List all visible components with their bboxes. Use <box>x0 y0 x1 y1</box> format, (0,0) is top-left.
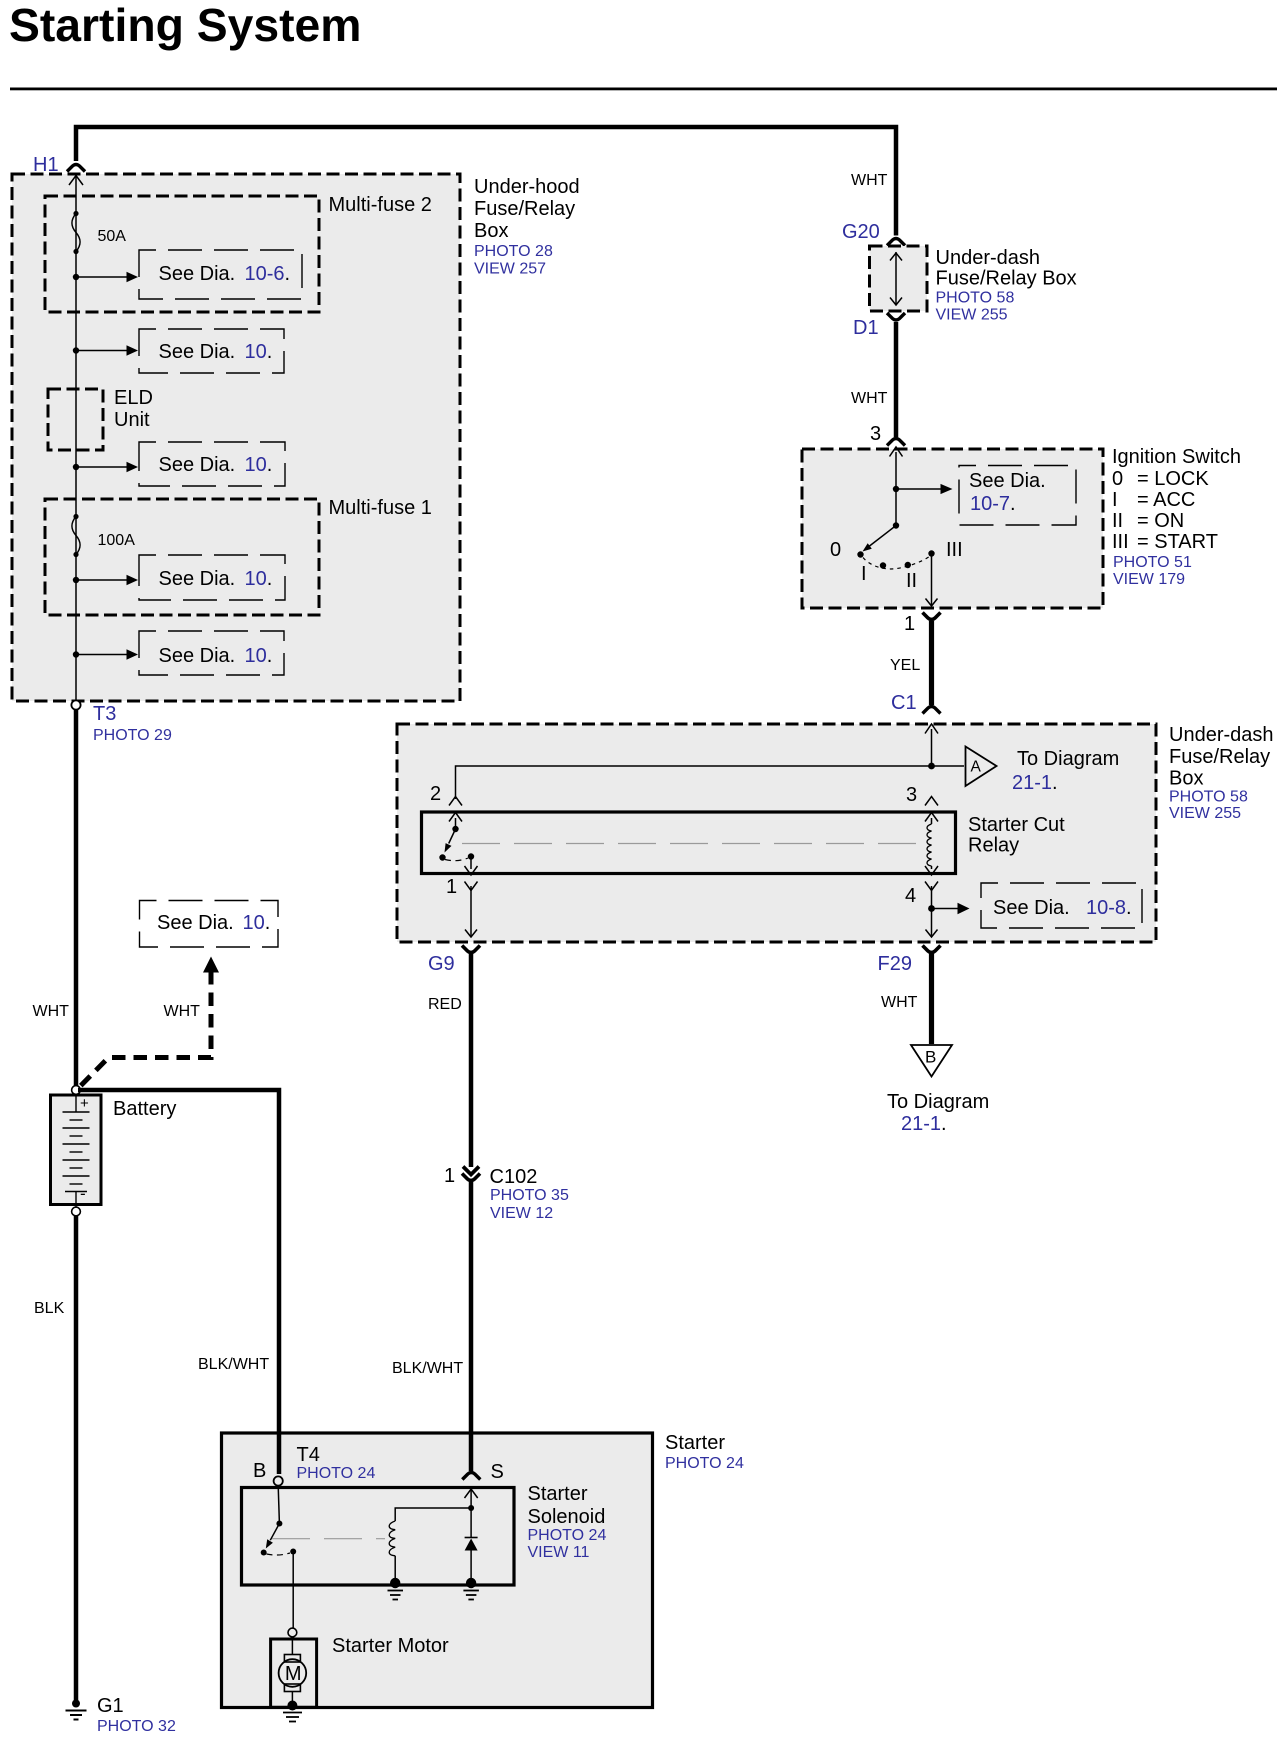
svg-text:C1: C1 <box>891 692 917 714</box>
svg-text:C102: C102 <box>490 1166 538 1188</box>
wire: battery feed top run H1 to G20 <box>76 127 896 236</box>
node F29 <box>923 946 941 953</box>
wire arrow to see dia 10 <box>76 579 127 581</box>
svg-text:See Dia.: See Dia. <box>159 454 236 476</box>
svg-text:Multi-fuse 1: Multi-fuse 1 <box>329 497 432 519</box>
battery + terminal <box>72 1086 81 1095</box>
node G9 <box>462 946 480 953</box>
see dia 10 box <box>139 442 285 486</box>
see dia 10 box (battery feed) <box>140 901 279 948</box>
svg-text:BLK/WHT: BLK/WHT <box>198 1356 269 1373</box>
svg-text:50A: 50A <box>98 228 127 245</box>
see dia 10 box <box>139 555 285 600</box>
wire: main vertical bus in under-hood box <box>75 176 77 701</box>
motor ground <box>287 1701 297 1711</box>
node junction <box>893 486 899 492</box>
svg-text:Starter: Starter <box>665 1432 725 1454</box>
svg-text:= ON: = ON <box>1137 510 1184 532</box>
svg-text:PHOTO 58: PHOTO 58 <box>1169 789 1248 806</box>
solenoid coil ground <box>390 1578 400 1588</box>
svg-text:21-1.: 21-1. <box>1012 772 1058 794</box>
starter solenoid box <box>242 1488 515 1586</box>
svg-text:Starter Cut: Starter Cut <box>968 814 1065 836</box>
svg-text:10-8.: 10-8. <box>1086 897 1132 919</box>
solenoid contact from B <box>278 1486 279 1524</box>
wire arrow to see dia 10 <box>76 466 127 468</box>
svg-text:PHOTO 24: PHOTO 24 <box>528 1527 607 1544</box>
ignition pin1 male-female terminal <box>923 613 941 620</box>
node H1 male terminal <box>69 176 83 186</box>
svg-text:VIEW 11: VIEW 11 <box>528 1544 590 1561</box>
node junction <box>73 464 79 470</box>
svg-text:See Dia.: See Dia. <box>159 263 236 285</box>
svg-text:To Diagram: To Diagram <box>887 1091 989 1113</box>
svg-text:10.: 10. <box>245 454 273 476</box>
svg-text:Ignition Switch: Ignition Switch <box>1112 446 1241 468</box>
svg-text:To Diagram: To Diagram <box>1017 748 1119 770</box>
svg-text:PHOTO 24: PHOTO 24 <box>297 1465 376 1482</box>
under-hood fuse/relay box <box>12 174 460 701</box>
svg-text:B: B <box>253 1460 266 1482</box>
to diagram A triangle <box>966 747 997 787</box>
see dia 10-7 box <box>959 466 1076 526</box>
svg-text:See Dia.: See Dia. <box>993 897 1070 919</box>
svg-text:G1: G1 <box>97 1695 124 1717</box>
under-dash fuse/relay box (upper) <box>870 246 928 311</box>
svg-text:Fuse/Relay: Fuse/Relay <box>474 198 575 220</box>
svg-text:= START: = START <box>1137 531 1218 553</box>
relay linkage dashed <box>462 843 925 845</box>
svg-text:I: I <box>1112 489 1118 511</box>
ignition switch connector female <box>887 439 905 446</box>
svg-text:Fuse/Relay: Fuse/Relay <box>1169 746 1270 768</box>
svg-text:II: II <box>906 570 917 592</box>
svg-text:PHOTO 35: PHOTO 35 <box>490 1187 569 1204</box>
wire rail to A and pin 2 <box>456 766 965 799</box>
svg-text:100A: 100A <box>98 532 136 549</box>
svg-text:= ACC: = ACC <box>1137 489 1195 511</box>
node junction on rail <box>928 763 935 770</box>
svg-text:Under-hood: Under-hood <box>474 176 580 198</box>
node G20 female terminal <box>887 239 905 246</box>
solenoid diode ground <box>466 1578 476 1588</box>
motor M <box>291 1637 293 1655</box>
wire RED G9 to C102 <box>469 952 474 1167</box>
switch contacts 0 I II III <box>857 551 863 557</box>
svg-text:WHT: WHT <box>851 390 888 407</box>
starter cut relay box <box>422 812 956 874</box>
relay pin2 terminals <box>449 797 462 822</box>
svg-text:Box: Box <box>474 220 508 242</box>
svg-text:PHOTO 32: PHOTO 32 <box>97 1718 176 1735</box>
node C1 female terminal <box>923 707 941 714</box>
svg-text:Starter: Starter <box>528 1483 588 1505</box>
svg-text:VIEW 257: VIEW 257 <box>474 261 546 278</box>
relay pin4 terminals <box>925 866 938 891</box>
node junction <box>73 274 79 280</box>
svg-text:G9: G9 <box>428 953 455 975</box>
battery - terminal <box>72 1207 81 1216</box>
svg-text:10-7.: 10-7. <box>970 493 1016 515</box>
wire pin1 to G9 <box>470 886 472 936</box>
connector C102 <box>463 1167 479 1175</box>
svg-text:2: 2 <box>430 783 441 805</box>
svg-text:III: III <box>1112 531 1129 553</box>
wire arrow to see dia 10-8 <box>932 908 959 910</box>
svg-text:PHOTO 24: PHOTO 24 <box>665 1455 744 1472</box>
wire: battery positive to starter B <box>78 1090 279 1474</box>
svg-text:VIEW 179: VIEW 179 <box>1113 571 1185 588</box>
relay coil <box>931 818 933 824</box>
node junction <box>468 1505 474 1511</box>
dashed wire WHT to see dia 10 <box>79 971 211 1088</box>
svg-text:T4: T4 <box>297 1444 320 1466</box>
wire pin4 down <box>931 886 933 936</box>
svg-text:10.: 10. <box>245 341 273 363</box>
svg-text:Starting System: Starting System <box>9 0 361 51</box>
svg-text:Relay: Relay <box>968 835 1019 857</box>
svg-text:S: S <box>491 1461 504 1483</box>
svg-text:0: 0 <box>1112 468 1123 490</box>
solenoid diode <box>470 1508 472 1538</box>
svg-text:PHOTO 28: PHOTO 28 <box>474 243 553 260</box>
starter box <box>222 1433 653 1708</box>
svg-text:Box: Box <box>1169 768 1203 790</box>
wire into switch <box>895 452 897 526</box>
ignition switch box <box>802 449 1103 608</box>
ignition male terminal pin 3 <box>890 447 903 457</box>
wire WHT F29 to B triangle <box>929 952 934 1044</box>
svg-text:Solenoid: Solenoid <box>528 1506 606 1528</box>
svg-text:Unit: Unit <box>114 409 150 431</box>
node C1 male terminal <box>925 724 938 734</box>
wire C1 to relay rail <box>931 729 933 766</box>
svg-text:G20: G20 <box>842 221 880 243</box>
wire BLK/WHT C102 to S <box>469 1182 474 1471</box>
multi-fuse 1 box <box>45 499 319 615</box>
svg-text:WHT: WHT <box>164 1003 201 1020</box>
svg-text:WHT: WHT <box>33 1003 70 1020</box>
switch wiper <box>893 522 899 528</box>
wire arrow to see dia 10-7 <box>896 488 941 490</box>
svg-text:PHOTO 51: PHOTO 51 <box>1113 554 1192 571</box>
wire WHT D1 to ignition switch <box>894 322 899 437</box>
ground G1 <box>72 1700 80 1708</box>
svg-text:10.: 10. <box>245 568 273 590</box>
svg-text:PHOTO 58: PHOTO 58 <box>936 290 1015 307</box>
svg-text:See Dia.: See Dia. <box>159 341 236 363</box>
node H1 female terminal <box>67 165 85 172</box>
node S terminal female <box>462 1473 480 1480</box>
svg-text:D1: D1 <box>853 317 879 339</box>
svg-text:Under-dash: Under-dash <box>1169 724 1274 746</box>
svg-text:10.: 10. <box>243 912 271 934</box>
svg-text:WHT: WHT <box>881 994 918 1011</box>
svg-text:Fuse/Relay Box: Fuse/Relay Box <box>936 268 1077 290</box>
svg-text:Under-dash: Under-dash <box>936 247 1041 269</box>
svg-text:-: - <box>80 1184 86 1203</box>
svg-text:1: 1 <box>444 1165 455 1187</box>
wire arrow to see dia 10 <box>76 654 127 656</box>
wire arrow to see dia 10 <box>76 350 127 352</box>
svg-text:See Dia.: See Dia. <box>159 645 236 667</box>
fuse 50A <box>73 211 78 216</box>
starter motor terminal <box>288 1628 297 1637</box>
solenoid coil <box>395 1508 471 1521</box>
see dia 10-8 box <box>981 883 1142 928</box>
svg-text:1: 1 <box>904 613 915 635</box>
under-dash fuse/relay box (lower) <box>397 724 1156 942</box>
to diagram B triangle <box>911 1045 952 1077</box>
node junction <box>73 577 79 583</box>
wire from III to pin 1 <box>931 556 933 605</box>
node junction <box>73 651 79 657</box>
wire stubs into starter box <box>277 1433 282 1474</box>
svg-text:0: 0 <box>830 539 841 561</box>
wire WHT from T3 to battery <box>74 710 79 1086</box>
fuse 100A <box>73 514 78 519</box>
node junction <box>73 347 79 353</box>
node junction <box>928 905 935 912</box>
svg-text:ELD: ELD <box>114 387 153 409</box>
svg-text:Starter Motor: Starter Motor <box>332 1635 449 1657</box>
svg-text:21-1.: 21-1. <box>901 1113 947 1135</box>
title rule <box>10 88 1277 91</box>
multi-fuse 2 box <box>45 196 319 312</box>
svg-text:BLK/WHT: BLK/WHT <box>392 1360 463 1377</box>
svg-text:10.: 10. <box>245 645 273 667</box>
svg-text:See Dia.: See Dia. <box>969 470 1046 492</box>
svg-text:PHOTO 29: PHOTO 29 <box>93 727 172 744</box>
svg-text:VIEW 255: VIEW 255 <box>1169 805 1241 822</box>
ELD unit box <box>48 389 103 450</box>
svg-text:III: III <box>946 539 963 561</box>
wire YEL to C1 <box>929 621 934 705</box>
svg-text:BLK: BLK <box>34 1300 65 1317</box>
see dia 10 box <box>139 631 284 675</box>
svg-text:Multi-fuse 2: Multi-fuse 2 <box>329 194 432 216</box>
relay contact <box>455 818 457 829</box>
solenoid S input male <box>465 1489 478 1498</box>
svg-text:VIEW 255: VIEW 255 <box>936 307 1008 324</box>
wire to starter motor <box>292 1552 294 1629</box>
svg-text:+: + <box>80 1095 89 1112</box>
see dia 10-6 box <box>139 250 302 299</box>
svg-text:3: 3 <box>870 423 881 445</box>
svg-text:4: 4 <box>905 885 916 907</box>
solenoid linkage dashed <box>272 1538 385 1540</box>
svg-text:II: II <box>1112 510 1123 532</box>
wire arrow to see dia 10-6 <box>76 276 127 278</box>
svg-text:= LOCK: = LOCK <box>1137 468 1209 490</box>
starter motor box <box>271 1639 317 1707</box>
svg-text:3: 3 <box>906 784 917 806</box>
svg-text:RED: RED <box>428 996 462 1013</box>
wire BLK battery to G1 <box>74 1216 79 1701</box>
svg-text:B: B <box>925 1048 936 1067</box>
svg-text:See Dia.: See Dia. <box>159 568 236 590</box>
node T3 terminal <box>71 700 80 709</box>
svg-text:M: M <box>285 1663 302 1685</box>
svg-text:I: I <box>861 563 867 585</box>
svg-text:VIEW 12: VIEW 12 <box>490 1205 553 1222</box>
svg-text:See Dia.: See Dia. <box>157 912 234 934</box>
svg-text:T3: T3 <box>93 703 116 725</box>
svg-text:1: 1 <box>446 876 457 898</box>
svg-text:YEL: YEL <box>890 657 920 674</box>
svg-text:F29: F29 <box>878 953 912 975</box>
relay pin3 terminals <box>925 797 938 822</box>
svg-text:A: A <box>971 759 982 776</box>
wire through box with arrows <box>895 252 897 305</box>
svg-text:10-6.: 10-6. <box>245 263 291 285</box>
see dia 10 box <box>139 329 284 373</box>
svg-text:Battery: Battery <box>113 1098 176 1120</box>
battery <box>51 1095 102 1205</box>
node B terminal <box>274 1476 283 1485</box>
relay pin1 terminals <box>465 866 478 891</box>
svg-text:WHT: WHT <box>851 172 888 189</box>
node D1 female terminal <box>887 313 905 320</box>
